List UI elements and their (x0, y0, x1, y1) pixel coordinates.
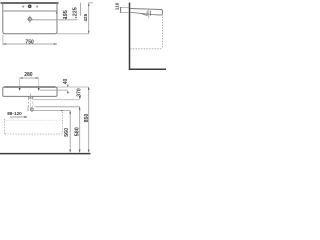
dim 425 top tick (89, 2, 93, 4)
svg-text:580: 580 (74, 127, 80, 136)
main tap hole circle w/ crosshair (28, 18, 31, 21)
dashed furniture box (front): left edge (4, 119, 6, 134)
tap hole centerline tick (side) (148, 10, 150, 19)
waste stub (front) (28, 96, 33, 98)
tap hole slot left (front) (19, 88, 21, 91)
svg-text:425: 425 (83, 13, 88, 21)
overflow detail (142, 13, 148, 15)
560 top arrow (69, 111, 71, 114)
upper drain leader (580 ref) (35, 106, 80, 108)
110 arrows (120, 7, 121, 9)
basin outline (front view) (4, 86, 56, 88)
dashed furniture box (side): bottom edge (130, 48, 162, 50)
svg-text:88-120: 88-120 (7, 111, 22, 116)
dim 425 bottom arrow (88, 31, 90, 34)
basin outline (plan) (3, 3, 57, 34)
siphon symbol vertical bar (31, 107, 33, 112)
svg-text:40: 40 (63, 79, 69, 85)
front edge extension to 425 dim (57, 33, 89, 35)
560 bottom arrow (69, 150, 71, 153)
waste centerline tick (30, 94, 32, 99)
dashed waste pipe left (27, 99, 29, 107)
floor line (front) (0, 153, 91, 155)
dashed furniture box (front): right edge (62, 112, 64, 134)
alt tap hole mark right (+) (36, 5, 38, 8)
svg-text:370: 370 (77, 88, 83, 97)
dashed furniture box (side): right edge (162, 17, 164, 49)
center tap hole donut (29, 5, 31, 7)
750 dim right arrow (54, 43, 57, 45)
dashed waste pipe right (32, 99, 34, 107)
580 dim line (79, 107, 81, 152)
110 extension lines (120, 6, 129, 8)
850 top arrow (88, 87, 90, 90)
alt tap hole mark left (+) (22, 5, 24, 8)
tap hole slot right (front) (38, 88, 40, 91)
arrow at ledge end (56, 11, 58, 13)
basin profile rim top (130, 9, 162, 16)
tap hole leader line (32, 19, 78, 21)
dashed furniture box (front): bottom edge (5, 133, 63, 135)
blob on lower leader at dashed box edge (61, 110, 63, 111)
750 dim left arrow (3, 43, 6, 45)
750 dim left extension (2, 35, 4, 45)
dim 225 line (79, 3, 81, 16)
siphon left bar (27, 106, 29, 111)
wall line (plan) (1, 2, 59, 4)
280 extension lines (19, 78, 21, 87)
tap hole slot (side) (147, 11, 150, 16)
underside reference line (34, 99, 80, 101)
svg-text:750: 750 (25, 39, 34, 45)
svg-text:195: 195 (63, 10, 69, 19)
siphon symbol circle (30, 108, 33, 111)
svg-text:280: 280 (24, 72, 33, 78)
280 dim line (20, 77, 39, 79)
lower drain leader (560 ref) (34, 110, 70, 112)
750 dim line (3, 43, 57, 45)
40 dim arrows (67, 85, 69, 88)
88-120 leader w/ arrow (10, 116, 26, 118)
370 arrow (79, 96, 81, 99)
svg-text:850: 850 (84, 114, 90, 123)
ledge line (plan) (3, 10, 57, 12)
rim top extension line (front) (57, 86, 89, 88)
wall line (side) (129, 3, 131, 70)
560 dim line (69, 111, 71, 153)
dashed furniture box (front): top edge (5, 119, 63, 121)
dashed waste pipe centerline (30, 100, 32, 108)
280 arrows (20, 77, 23, 79)
850 bottom arrow (88, 150, 90, 153)
580 bottom arrow (79, 150, 81, 153)
110 dim line (120, 7, 122, 12)
floor line (side) (129, 68, 166, 70)
svg-text:225: 225 (72, 7, 78, 16)
dim 425 top arrow (88, 3, 90, 6)
basin profile underside (130, 12, 162, 15)
tap hole depth line (front) (40, 89, 68, 91)
svg-text:110: 110 (114, 2, 119, 10)
dim 225 arrow (75, 17, 77, 19)
580 top arrow (79, 107, 81, 110)
dim 195 arrow (65, 17, 67, 19)
dim 425 line (88, 3, 90, 34)
850 dim line (88, 87, 90, 152)
svg-text:560: 560 (64, 128, 70, 137)
